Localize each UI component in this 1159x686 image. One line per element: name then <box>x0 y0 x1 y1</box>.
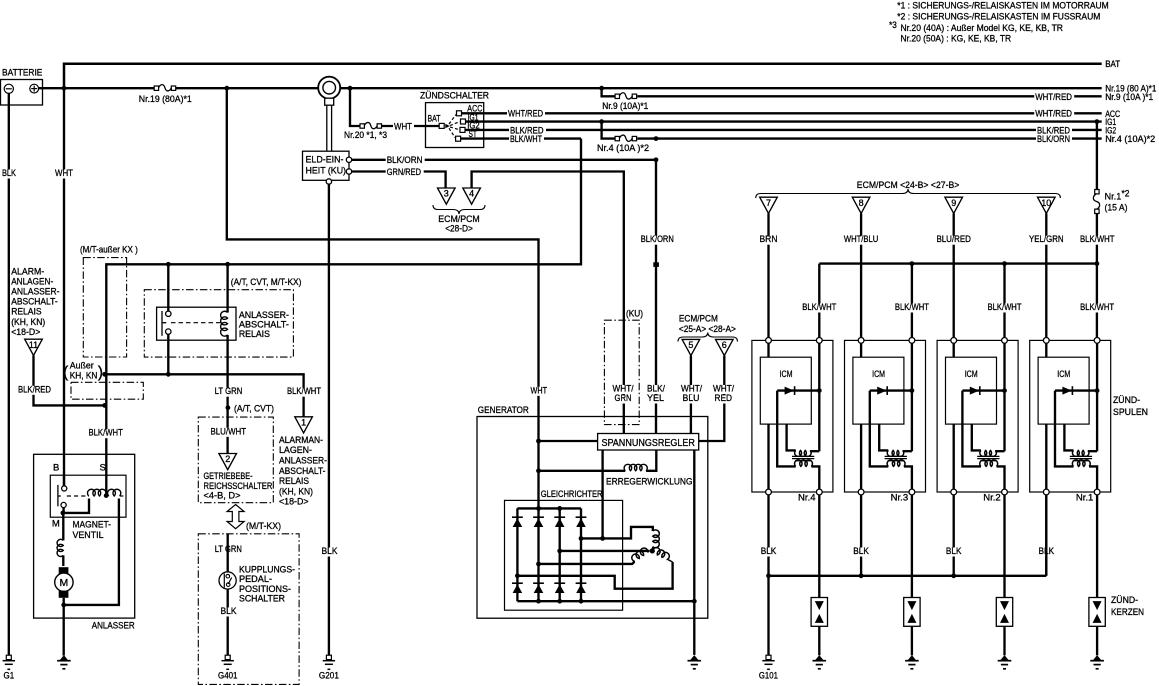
svg-text:BLK: BLK <box>761 546 777 557</box>
pin ground bottom <box>858 489 864 495</box>
svg-text:KH, KN: KH, KN <box>70 371 98 382</box>
dashed plunger line <box>67 495 89 497</box>
fuse Nr.19 (80A)*1 <box>154 86 158 90</box>
node diode to power <box>910 388 915 393</box>
wire WHT battery junction down to starter B <box>63 88 65 486</box>
connector triangle 9 <box>945 197 963 213</box>
svg-text:BLK/ORN: BLK/ORN <box>387 155 423 166</box>
svg-text:G101: G101 <box>759 671 778 682</box>
svg-text:(KU): (KU) <box>626 308 643 319</box>
svg-text:S: S <box>100 462 106 473</box>
svg-text:Nr.4: Nr.4 <box>798 493 816 504</box>
wire BLK/WHT distribution bus <box>819 262 1097 264</box>
wire ST line BLK/WHT <box>461 137 581 139</box>
transmission range switch box GETRIEBEBEREICHSSCHALTER <box>198 417 273 503</box>
svg-text:HEIT (KU): HEIT (KU) <box>306 166 347 177</box>
fuse Nr.4 (10A)*2 <box>615 136 619 140</box>
connector triangle 8 <box>852 197 870 213</box>
dashed link contact to coil <box>171 322 222 324</box>
wire signal pin into ICM <box>953 343 955 357</box>
battery positive terminal <box>30 84 39 93</box>
wire power to primary <box>1088 450 1097 452</box>
rectifier bottom bus to ground <box>517 600 694 602</box>
svg-text:G1: G1 <box>4 671 15 682</box>
wire signal pin into ICM <box>767 343 769 357</box>
svg-text:WHT: WHT <box>531 385 548 396</box>
svg-text:RED: RED <box>715 393 733 404</box>
svg-text:BLK: BLK <box>853 546 869 557</box>
ring terminal connector <box>318 77 340 99</box>
starter solenoid pull-in coil <box>87 489 106 496</box>
wire ICM to primary <box>1064 424 1073 450</box>
svg-text:5: 5 <box>688 340 693 350</box>
wire power pin down <box>1096 343 1098 451</box>
svg-text:YEL/GRN: YEL/GRN <box>1029 234 1064 245</box>
label M/T-ausser KX box <box>83 258 126 357</box>
ground G201 <box>326 655 331 659</box>
primary winding <box>1072 450 1089 456</box>
voltage regulator SPANNUNGSREGLER <box>598 434 699 451</box>
svg-text:BLK: BLK <box>221 606 238 617</box>
label A/T CVT M/T-KX box <box>144 290 293 357</box>
coil unit outer box <box>752 340 833 492</box>
node Nr.4 output junction <box>654 136 659 141</box>
connector triangle 5 <box>682 339 700 355</box>
coil unit outer box <box>1030 340 1111 492</box>
primary winding <box>795 450 812 456</box>
svg-text:GRN: GRN <box>615 393 632 404</box>
wire BAT top bus <box>64 64 1102 88</box>
wire BLK/ORN BLK/YEL to regulator <box>655 160 657 434</box>
wire hold coil return <box>64 499 119 605</box>
node fuse9 tap <box>599 86 604 91</box>
pin spark bottom <box>1002 489 1008 495</box>
svg-text:BLK: BLK <box>322 546 339 557</box>
wire ICM to ground pin <box>860 424 862 489</box>
pin spark bottom <box>1094 489 1100 495</box>
wire contact to M node <box>62 508 64 513</box>
brace ECM 24B 27B <box>756 189 1061 198</box>
connector triangle 1 <box>295 417 313 433</box>
rectifier diode columns <box>516 508 518 601</box>
spark plug Nr.4 <box>811 598 827 627</box>
spark plug ground Nr.3 <box>908 655 916 660</box>
secondary winding <box>980 460 998 467</box>
svg-text:M: M <box>52 519 60 530</box>
phase U wire <box>581 527 653 539</box>
pin ELD BLK/ORN <box>346 157 351 162</box>
wire relay contact to Ausser bus <box>167 340 169 374</box>
wire relay coil to LT GRN <box>226 340 228 453</box>
igniter ICM box <box>946 357 997 424</box>
wire ICM to ground pin <box>953 424 955 489</box>
svg-text:ICM: ICM <box>872 369 885 380</box>
wire BLK/WHT fuse Nr.1 down <box>1096 214 1098 341</box>
svg-text:G201: G201 <box>319 671 339 682</box>
wire WHT to regulator <box>539 440 598 442</box>
pin power top <box>1094 338 1100 344</box>
wire IG1 to fuse Nr.4 <box>602 122 617 139</box>
svg-text:GLEICHRICHTER: GLEICHRICHTER <box>541 489 603 500</box>
svg-text:ERREGERWICKLUNG: ERREGERWICKLUNG <box>606 476 693 487</box>
wire ICM to primary <box>787 424 796 450</box>
svg-text:<28-D>: <28-D> <box>445 223 473 234</box>
node diode to power <box>1095 388 1100 393</box>
svg-text:11: 11 <box>29 340 38 350</box>
wire spark plug Nr.2 to ground <box>1003 626 1005 655</box>
spark plug Nr.3 <box>904 598 920 627</box>
svg-text:BLK/WHT: BLK/WHT <box>510 134 542 145</box>
coil unit outer box <box>937 340 1018 492</box>
diode in ICM <box>870 389 912 391</box>
wire regulator to rectifier phase <box>601 450 603 538</box>
double arrow alternative link <box>227 505 244 529</box>
igniter ICM box <box>853 357 904 424</box>
svg-text:B: B <box>53 462 59 473</box>
wire power pin down <box>818 343 820 451</box>
pin ELD GRN/RED <box>346 169 351 174</box>
switch contact IG2 <box>460 127 465 132</box>
node diode to power <box>817 388 822 393</box>
svg-text:Nr.20 *1, *3: Nr.20 *1, *3 <box>344 130 387 141</box>
svg-text:KERZEN: KERZEN <box>1111 607 1144 618</box>
pin ground bottom <box>1043 489 1049 495</box>
dash-dot annotation box <box>71 382 143 399</box>
wire power to primary <box>903 450 912 452</box>
svg-text:SPANNUNGSREGLER: SPANNUNGSREGLER <box>601 438 695 449</box>
wire WHT fuse20 to ignition switch BAT <box>382 125 440 127</box>
diode in ICM <box>777 389 819 391</box>
wire IG2 line BLK/RED <box>465 129 1101 131</box>
secondary winding <box>1072 460 1090 467</box>
rectifier top bus <box>517 507 581 509</box>
generator GENERATOR box <box>477 417 708 619</box>
svg-text:ELD-EIN-: ELD-EIN- <box>306 154 344 165</box>
switch contact BAT <box>439 123 444 128</box>
diode in ICM <box>962 389 1004 391</box>
wire BLK clutch switch to G401 <box>227 589 229 656</box>
svg-text:WHT: WHT <box>394 122 412 133</box>
coil unit outer box <box>845 340 926 492</box>
wire BLK/WHT drop to coil Nr.2 <box>1003 264 1005 341</box>
node starter ground junction <box>61 603 66 608</box>
wire WHT/BLU triangle 8 to coil Nr.3 <box>860 213 862 340</box>
clutch pedal position switch <box>219 572 236 589</box>
fuse Nr.9 (10A)*1 <box>615 94 619 98</box>
svg-text:G401: G401 <box>218 671 238 682</box>
svg-text:Nr.9 (10A )*1: Nr.9 (10A )*1 <box>1105 92 1153 103</box>
svg-text:(A/T, CVT): (A/T, CVT) <box>234 403 274 414</box>
relay coil <box>226 264 228 312</box>
wire ECM pin 4 to generator WHT/GRN <box>472 172 624 434</box>
wire diode anode to secondary <box>962 391 981 467</box>
wire power to primary <box>995 450 1004 452</box>
svg-text:ICM: ICM <box>1057 369 1070 380</box>
switch contact ST <box>456 136 461 141</box>
wire IG1 line <box>466 120 1102 122</box>
primary winding <box>980 450 997 456</box>
svg-text:BLU/WHT: BLU/WHT <box>211 426 247 437</box>
node generator ground junction <box>692 599 697 604</box>
transformer core <box>1070 455 1092 457</box>
stator coil W <box>630 547 648 563</box>
wire BRN triangle 7 to coil Nr.4 <box>767 213 769 340</box>
transformer core <box>977 455 999 457</box>
relay contact <box>166 311 171 316</box>
wire regulator output to ground bus <box>693 450 695 601</box>
switch contact IG1 <box>461 119 466 124</box>
node relay contact tap <box>166 262 171 267</box>
wire BLK battery negative to G1 <box>8 93 10 655</box>
node alternator feed junction <box>224 86 229 91</box>
wire BLK/RED triangle 11 to S line <box>34 355 105 405</box>
wire BLK/ORN ELD to Nr.4 node <box>352 159 656 161</box>
svg-text:4: 4 <box>469 189 474 199</box>
wire ICM to primary <box>972 424 981 450</box>
node diode to power <box>1002 388 1007 393</box>
svg-text:ANLASSER: ANLASSER <box>92 620 135 631</box>
svg-text:VENTIL: VENTIL <box>73 530 104 541</box>
node ignition switch feed junction <box>348 86 353 91</box>
spark plug ground Nr.1 <box>1093 655 1101 660</box>
spark plug ground Nr.4 <box>815 655 823 660</box>
wire fuse19 to ring terminal <box>176 87 319 89</box>
svg-text:WHT/BLU: WHT/BLU <box>844 234 879 245</box>
wire generator ground <box>693 601 695 655</box>
wire ICM to ground pin <box>767 424 769 489</box>
ignition coil unit Nr.3 with ICM <box>845 338 926 495</box>
switch contact ACC <box>457 111 462 116</box>
wire secondary to spark pin <box>904 466 912 489</box>
svg-text:BRN: BRN <box>760 234 778 245</box>
starter ANLASSER box <box>34 454 135 618</box>
node relay contact joins bus <box>166 372 171 377</box>
fuse Nr.1 (15A) <box>1095 190 1099 194</box>
ignition coil unit Nr.4 with ICM <box>752 338 833 495</box>
svg-text:2: 2 <box>225 454 230 464</box>
svg-text:SPULEN: SPULEN <box>1113 407 1148 418</box>
wire spark lead Nr.2 <box>1003 495 1005 598</box>
svg-text:*2: *2 <box>1122 189 1130 200</box>
svg-text:ICM: ICM <box>965 369 978 380</box>
svg-text:ZÜND-: ZÜND- <box>1113 395 1140 406</box>
connector triangle 10 <box>1038 197 1056 213</box>
fuse Nr.20 *1 *3 <box>360 124 364 128</box>
pin signal top <box>951 338 957 344</box>
svg-text:(15 A): (15 A) <box>1105 203 1128 214</box>
wire spark plug Nr.1 to ground <box>1096 626 1098 655</box>
svg-text:7: 7 <box>766 198 771 208</box>
svg-text:10: 10 <box>1041 198 1051 208</box>
diode in ICM <box>1055 389 1097 391</box>
svg-text:6: 6 <box>722 340 727 350</box>
svg-text:Nr.9 (10A)*1: Nr.9 (10A)*1 <box>602 101 648 112</box>
wire WHT/BLU triangle 5 to regulator <box>690 356 692 434</box>
wire secondary to spark pin <box>811 466 819 489</box>
pin power top <box>1002 338 1008 344</box>
node IG1 fuse1 tap <box>1095 119 1100 124</box>
wire WHT/RED triangle 6 to regulator <box>699 356 725 441</box>
svg-text:BAT: BAT <box>1105 59 1120 70</box>
connector triangle 4 ECM/PCM <box>463 188 481 204</box>
rectifier GLEICHRICHTER box <box>505 500 623 610</box>
igniter ICM box <box>1038 357 1089 424</box>
transformer core <box>885 455 907 457</box>
generator ground symbol <box>690 655 698 660</box>
svg-text:BATTERIE: BATTERIE <box>2 68 42 79</box>
wire ground bus to G101 <box>767 576 769 656</box>
svg-text:BLK/WHT: BLK/WHT <box>287 386 321 397</box>
svg-text:M: M <box>60 577 69 589</box>
svg-text:WHT/RED: WHT/RED <box>508 109 543 120</box>
wire spark plug Nr.4 to ground <box>818 626 820 655</box>
svg-text:BLK/ORN: BLK/ORN <box>641 234 674 245</box>
spark plug Nr.1 <box>1089 598 1105 627</box>
wire BLK coil Nr.2 ground <box>953 495 955 576</box>
svg-text:Nr.4 (10A )*2: Nr.4 (10A )*2 <box>597 143 649 154</box>
ground G101 <box>766 655 771 659</box>
switch rotor dashed arms <box>449 115 456 125</box>
wire power pin down <box>911 343 913 451</box>
wire Nr.1 coil ground to bus <box>1045 495 1047 576</box>
labels WHT/GRN <box>612 385 635 394</box>
node field coil tap <box>536 468 541 473</box>
stator coil U <box>653 530 660 548</box>
svg-text:Nr.20 (50A) : KG, KE, KB, TR: Nr.20 (50A) : KG, KE, KB, TR <box>901 33 1012 44</box>
connector splice on BLK/YEL <box>653 262 659 267</box>
primary winding <box>887 450 904 456</box>
wire Nr.4 BLK/ORN to right edge <box>637 137 1101 139</box>
svg-text:(M/T-KX): (M/T-KX) <box>246 521 281 532</box>
pin ground bottom <box>951 489 957 495</box>
node BLK/RED joins S line <box>102 403 107 408</box>
wire BLK coil Nr.3 ground <box>860 495 862 576</box>
svg-text:BLK/WHT: BLK/WHT <box>988 302 1022 313</box>
wire YEL/GRN triangle 10 to coil Nr.1 <box>1045 213 1047 340</box>
ground G401 <box>225 655 230 659</box>
wire BLK/WHT drop to coil Nr.3 <box>911 264 913 341</box>
wire field winding ERREGERWICKLUNG <box>539 470 626 472</box>
pin power top <box>909 338 915 344</box>
relay ANLASSER-ABSCHALT-RELAIS <box>157 307 236 340</box>
svg-text:ECM/PCM: ECM/PCM <box>679 314 718 325</box>
node IG1 fuse4 tap <box>599 119 604 124</box>
connector triangle 7 <box>760 197 778 213</box>
wire diode anode to secondary <box>777 391 796 467</box>
ignition coil unit Nr.2 with ICM <box>937 338 1018 495</box>
fuse Nr.1 (15A)*2 feed <box>1096 122 1098 190</box>
phase W wire <box>539 562 635 564</box>
stator star point <box>650 548 655 553</box>
pin power top <box>816 338 822 344</box>
igniter ICM box <box>760 357 811 424</box>
svg-text:BLU: BLU <box>683 393 700 404</box>
connector triangle 2 <box>219 454 237 470</box>
svg-text:BLK/WHT: BLK/WHT <box>895 302 929 313</box>
wire BLK/WHT drop to coil Nr.4 <box>818 264 820 341</box>
svg-text:BLK/ORN: BLK/ORN <box>1037 134 1070 145</box>
dashed KU box generator <box>604 320 639 424</box>
svg-text:Nr.1: Nr.1 <box>1076 493 1094 504</box>
pin signal top <box>858 338 864 344</box>
svg-text:WHT/RED: WHT/RED <box>1035 92 1072 103</box>
svg-text:BLK/WHT: BLK/WHT <box>1080 302 1114 313</box>
connector triangle 3 ECM/PCM <box>438 188 456 204</box>
wire ring to ZUNDSCHALTER junction <box>340 87 602 89</box>
wire battery bus to fuse 19 <box>64 87 156 89</box>
svg-text:3: 3 <box>444 189 449 199</box>
node BLK/ORN junction <box>654 157 659 162</box>
transformer core <box>792 455 814 457</box>
wire double-line ring terminal to ELD unit <box>326 105 328 151</box>
svg-text:*1 : SICHERUNGS-/RELAISKASTEN: *1 : SICHERUNGS-/RELAISKASTEN IM MOTORRA… <box>897 0 1108 11</box>
starter contact <box>63 475 65 486</box>
wire M node to solenoid coil <box>62 513 64 541</box>
secondary winding <box>795 460 813 467</box>
wire BLK coil Nr.1 ground <box>1045 495 1047 576</box>
wire to fuse Nr.20 <box>350 88 361 126</box>
svg-text:ZÜNDSCHALTER: ZÜNDSCHALTER <box>420 91 489 102</box>
wire BLK/WHT ST to starter relay bus <box>106 139 581 375</box>
wire spark lead Nr.1 <box>1096 495 1098 598</box>
svg-text:*3: *3 <box>889 20 897 31</box>
wire power to primary <box>810 450 819 452</box>
node relay coil tap <box>225 262 230 267</box>
svg-text:BLU/RED: BLU/RED <box>936 234 971 245</box>
starter solenoid hold coil <box>108 489 121 496</box>
wire ACC line WHT/RED <box>462 112 1102 114</box>
spark plug Nr.2 <box>996 598 1012 627</box>
ELD unit ELD-EINHEIT (KU) <box>303 151 350 180</box>
pin spark bottom <box>816 489 822 495</box>
phase V wire <box>560 550 650 552</box>
svg-text:(M/T-außer KX ): (M/T-außer KX ) <box>80 245 138 256</box>
svg-text:WHT/RED: WHT/RED <box>1035 109 1072 120</box>
wire secondary to spark pin <box>997 466 1005 489</box>
spark plug ground Nr.2 <box>1000 655 1008 660</box>
svg-text:BLK/WHT: BLK/WHT <box>802 302 836 313</box>
svg-text:LT GRN: LT GRN <box>215 386 243 397</box>
pin ELD ground <box>326 179 331 184</box>
pin spark bottom <box>909 489 915 495</box>
pin signal top <box>766 338 772 344</box>
svg-text:RELAIS: RELAIS <box>239 329 270 340</box>
wire ICM to ground pin <box>1045 424 1047 489</box>
wire pull-in coil return <box>63 499 89 513</box>
ignition switch ZUNDSCHALTER <box>426 103 484 148</box>
wire S down to coil node <box>105 477 107 496</box>
wire power pin down <box>1003 343 1005 451</box>
wire signal pin into ICM <box>860 343 862 357</box>
svg-text:BLK/RED: BLK/RED <box>18 384 51 395</box>
wire diode anode to secondary <box>1055 391 1074 467</box>
wire alternator charge line <box>227 88 539 508</box>
battery BATTERIE <box>1 80 43 106</box>
wire ICM to primary <box>879 424 888 450</box>
wire BLU/RED triangle 9 to coil Nr.2 <box>953 213 955 340</box>
node A/T CVT split <box>226 405 231 410</box>
svg-text:ZÜND-: ZÜND- <box>1111 595 1138 606</box>
wire Nr.9 WHT/RED to right edge <box>637 95 1101 97</box>
brace ECM 25A 26A <box>678 333 738 342</box>
secondary winding <box>887 460 905 466</box>
wire motor to ground node <box>63 598 65 656</box>
svg-text:SCHALTER: SCHALTER <box>239 594 285 605</box>
svg-text:<18-D>: <18-D> <box>279 497 309 508</box>
starter solenoid inner box <box>50 475 126 517</box>
wire clutch switch upper <box>227 534 229 572</box>
wire BLK coil Nr.4 ground <box>767 495 769 576</box>
